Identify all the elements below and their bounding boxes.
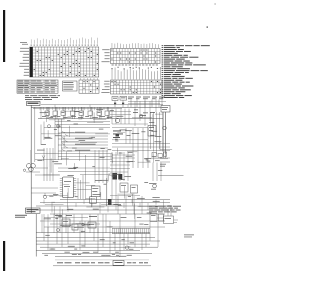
legend continuation	[149, 206, 181, 213]
component row R1..R8	[45, 107, 110, 118]
fuse drop wires	[115, 99, 159, 107]
upper-right grid wires	[132, 101, 152, 126]
connector ring P1	[31, 188, 58, 199]
note text	[25, 95, 60, 100]
connector matrix M1 header	[31, 37, 98, 45]
wire bundle C	[112, 112, 170, 181]
relay K1	[148, 126, 156, 137]
bottom bus marks	[44, 239, 134, 255]
comb drop wires	[41, 107, 109, 118]
bottom bus wires	[36, 241, 160, 257]
lower vertical drops	[44, 214, 158, 257]
page mark	[207, 27, 209, 28]
U1 side wires	[76, 175, 91, 199]
connector matrix M1 grid	[30, 47, 99, 77]
wire bundle A	[55, 119, 61, 160]
branch wires mid-right	[112, 128, 148, 144]
lower bus wires	[36, 200, 172, 215]
top labels row	[128, 97, 165, 100]
main bus wires	[31, 107, 163, 118]
margin note right	[184, 235, 194, 238]
connector comb	[112, 229, 150, 234]
misc wire segments	[41, 111, 172, 224]
lower section left rail	[35, 214, 37, 257]
footer caption	[53, 260, 151, 266]
box B1	[63, 81, 78, 91]
lower component boxes	[55, 215, 97, 230]
lower rung wires	[36, 218, 165, 238]
relay K3	[118, 174, 122, 180]
mid-right mesh	[110, 152, 140, 199]
bus tick comb	[40, 108, 107, 111]
component labels cluster	[113, 131, 123, 138]
mid horizontals	[35, 154, 112, 200]
right upper mesh	[110, 109, 155, 128]
lamp L1	[115, 118, 119, 122]
matrix corner label	[20, 42, 28, 44]
module U2	[90, 186, 100, 203]
wire bundle B	[44, 148, 53, 181]
control unit U1	[60, 177, 76, 198]
right component cluster	[150, 152, 168, 190]
grid G3	[79, 78, 99, 93]
glossary label box	[27, 102, 41, 106]
bus drop ticks	[44, 200, 156, 217]
connector matrix M3	[101, 67, 162, 94]
table T2	[17, 80, 58, 93]
lower section drop wires	[42, 196, 142, 233]
engine compartment label	[26, 208, 41, 213]
note rail wire	[41, 105, 163, 108]
comb labels	[42, 116, 112, 118]
left bus vertical	[31, 105, 35, 213]
junction cluster	[107, 178, 112, 206]
scanner edge mark bottom	[3, 241, 5, 271]
left margin note	[15, 215, 27, 218]
matrix M1 row labels	[19, 48, 29, 76]
wye node	[42, 156, 45, 162]
mid rung wires	[58, 132, 108, 152]
wire bundle D	[95, 150, 107, 183]
connector box J1	[161, 106, 170, 113]
right strip wires	[158, 112, 184, 176]
relay K2	[113, 173, 118, 180]
legend list	[162, 45, 210, 98]
fuse box F2	[120, 96, 127, 100]
connector matrix M2	[101, 43, 160, 66]
fuse box F1	[112, 97, 118, 101]
feed wires right	[114, 97, 166, 112]
scanner edge mark top	[3, 10, 5, 62]
ladder rungs	[41, 122, 110, 146]
corner speck	[215, 4, 216, 5]
motor M1 fan	[23, 150, 60, 175]
lower rings	[57, 223, 85, 231]
lower right boxes	[150, 206, 178, 224]
scattered wire labels	[37, 109, 162, 256]
